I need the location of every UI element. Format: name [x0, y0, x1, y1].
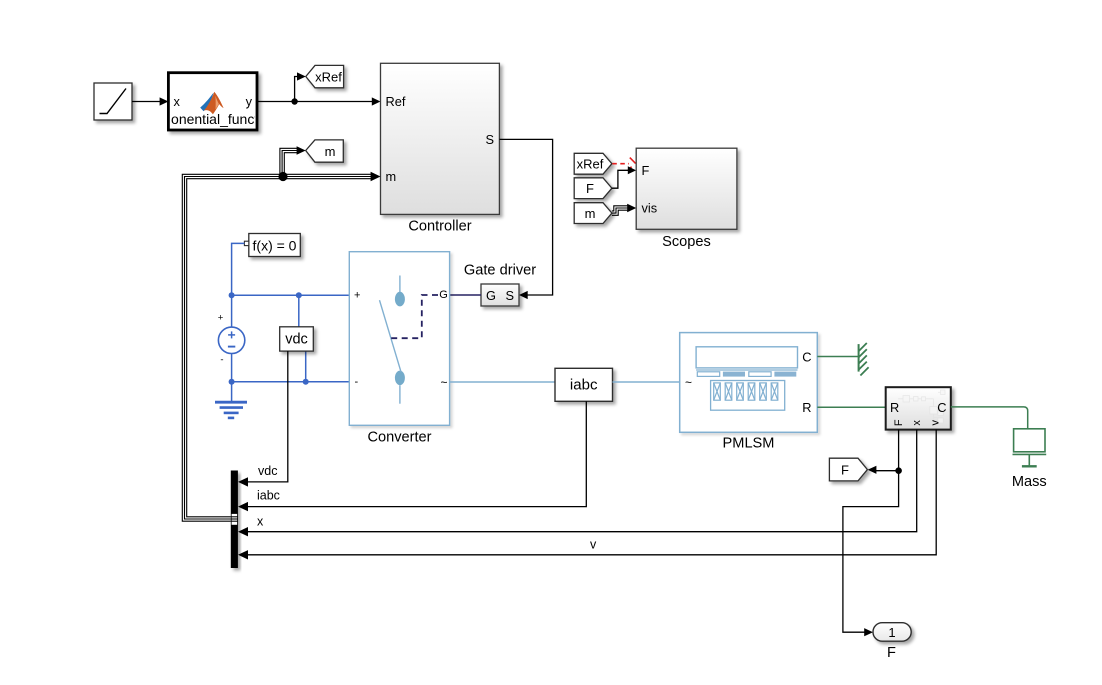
bus branch to m goto tag — [284, 153, 297, 177]
MATLAB logo — [200, 93, 213, 112]
svg-text:vdc: vdc — [258, 464, 277, 478]
wire y to Ref with branch — [257, 72, 381, 105]
bus wire m tag to Scopes vis port — [612, 204, 636, 216]
svg-text:G: G — [439, 289, 448, 301]
svg-text:m: m — [325, 144, 336, 159]
navy wire converter G to gate driver — [448, 294, 482, 296]
svg-text:Mass: Mass — [1012, 474, 1047, 490]
node dot bottom vdc — [303, 379, 309, 385]
iabc measurement wire to mux — [238, 401, 586, 511]
ac wire converter to iabc — [450, 381, 555, 383]
svg-text:vdc: vdc — [285, 332, 308, 348]
svg-text:x: x — [257, 515, 264, 529]
green wire PMLSM C to reference — [817, 356, 858, 358]
svg-text:iabc: iabc — [257, 489, 280, 503]
svg-text:R: R — [890, 400, 899, 415]
ramp source block — [94, 83, 132, 120]
m bus wire (mux output to Controller m port) — [182, 146, 380, 521]
goto tag m — [306, 140, 344, 162]
PMLSM block — [680, 333, 818, 433]
svg-text:Converter: Converter — [367, 430, 431, 446]
svg-text:-: - — [220, 355, 223, 366]
svg-text:m: m — [585, 206, 596, 221]
svg-text:Ref: Ref — [386, 94, 406, 109]
svg-text:xRef: xRef — [315, 70, 342, 85]
node dot top vdc — [296, 292, 302, 298]
mux output port notch — [232, 514, 238, 525]
converter gate dashed wire — [390, 295, 438, 338]
ac wire iabc to PMLSM — [613, 381, 680, 383]
ground symbol — [215, 402, 247, 418]
sensor F output wire — [843, 430, 902, 637]
svg-text:m: m — [386, 169, 397, 184]
svg-text:v: v — [929, 420, 941, 426]
wire F tag to Scopes F port — [612, 166, 636, 188]
DC voltage source — [218, 295, 245, 402]
Converter block — [349, 252, 449, 426]
svg-text:F: F — [893, 419, 905, 426]
vdc block — [280, 327, 314, 351]
svg-text:PMLSM: PMLSM — [723, 436, 775, 452]
svg-text:S: S — [485, 132, 494, 147]
svg-text:1: 1 — [888, 625, 895, 640]
sensor v output wire — [238, 430, 936, 560]
goto tag xRef — [306, 65, 344, 87]
solver config block f(x)=0 — [249, 234, 300, 257]
svg-text:y: y — [246, 94, 253, 109]
iabc block — [555, 368, 613, 401]
svg-text:v: v — [590, 538, 597, 552]
svg-text:F: F — [841, 463, 849, 478]
sensor inner preview — [898, 390, 945, 423]
from tag m (scopes) — [574, 203, 612, 224]
svg-text:F: F — [586, 181, 594, 196]
svg-text:x: x — [911, 420, 923, 426]
sensor x output wire — [238, 430, 917, 537]
svg-text:S: S — [506, 288, 515, 303]
bus junction dot — [278, 172, 287, 181]
svg-text:Gate driver: Gate driver — [464, 263, 536, 279]
svg-text:F: F — [887, 645, 896, 661]
bottom electrical rail — [232, 381, 350, 383]
vdc sensor wires — [298, 295, 300, 327]
vdc measurement wire to mux — [238, 351, 288, 487]
wire solver to node — [232, 243, 245, 295]
svg-text:f(x) = 0: f(x) = 0 — [253, 238, 297, 254]
svg-text:x: x — [174, 94, 181, 109]
svg-text:~: ~ — [685, 375, 692, 389]
svg-text:vis: vis — [642, 201, 658, 216]
svg-text:C: C — [802, 350, 811, 365]
goto tag F — [829, 458, 867, 481]
wire ramp to MATLAB function — [132, 97, 168, 105]
MATLAB function block exponential_function — [168, 73, 257, 130]
force-motion sensor block — [886, 387, 951, 429]
svg-text:C: C — [937, 400, 946, 415]
green wire PMLSM R to sensor R — [817, 406, 885, 408]
Scopes block — [636, 148, 737, 229]
green wire sensor C to Mass — [951, 407, 1028, 429]
PMLSM coils — [714, 383, 778, 400]
svg-text:Controller: Controller — [408, 219, 471, 235]
svg-text:xRef: xRef — [577, 157, 604, 172]
mux block — [231, 471, 238, 569]
node dot top-left — [229, 292, 235, 298]
svg-text:iabc: iabc — [570, 377, 598, 394]
Mass block — [1013, 429, 1047, 467]
svg-text:Scopes: Scopes — [662, 234, 711, 250]
from tag F (scopes) — [574, 178, 612, 199]
svg-text:+: + — [354, 289, 360, 301]
svg-text:F: F — [642, 163, 650, 178]
from tag xRef (scopes) — [574, 153, 612, 174]
wire Controller S to Gate driver — [499, 139, 552, 299]
top electrical rail — [232, 294, 350, 296]
PMLSM motor icon — [696, 347, 797, 410]
mechanical reference symbol — [859, 343, 869, 376]
Gate driver block — [481, 284, 519, 306]
svg-text:G: G — [486, 288, 496, 303]
svg-text:~: ~ — [440, 375, 447, 389]
svg-text:R: R — [802, 400, 811, 415]
svg-text:+: + — [218, 313, 224, 324]
solver port square — [244, 241, 248, 245]
red unconnected wire xRef to F port — [612, 158, 635, 170]
outport 1 — [873, 623, 911, 642]
Controller block — [381, 63, 500, 214]
svg-text:-: - — [355, 376, 359, 388]
node dot bottom-left — [229, 379, 235, 385]
converter switch icon — [380, 276, 405, 404]
